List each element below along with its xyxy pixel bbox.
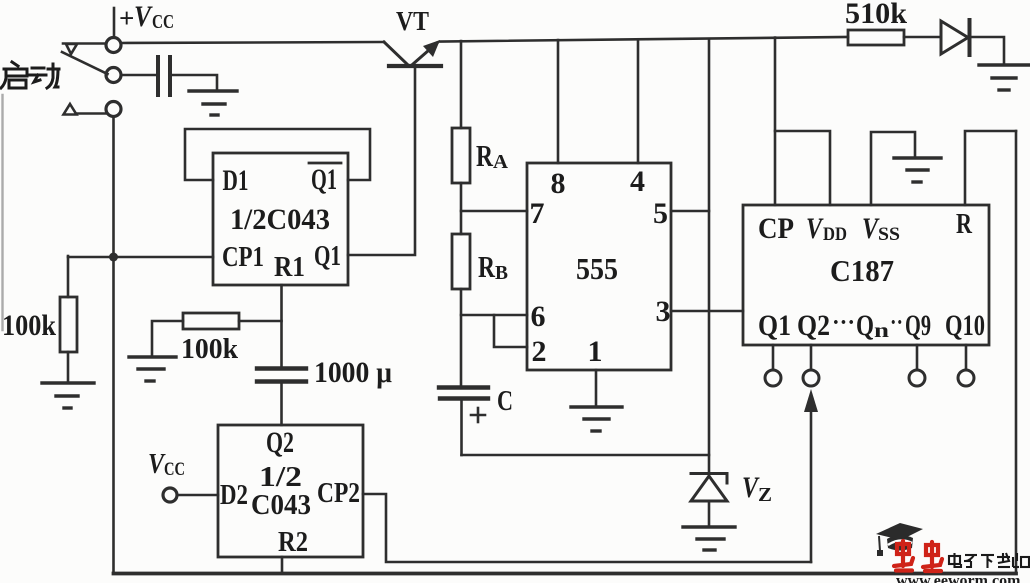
polarity plus sign [471, 408, 485, 422]
wire CP2 route [363, 494, 811, 562]
svg-text:Z: Z [758, 484, 772, 506]
wire R2 stub [281, 557, 284, 574]
wire bottom rail [114, 572, 1017, 576]
flip-flop U4 1/2C043 box [218, 425, 363, 557]
label RA [476, 138, 509, 173]
wire diode to ground [971, 37, 1004, 64]
node VCC label (left) [148, 448, 185, 480]
svg-text:Q2: Q2 [266, 426, 294, 459]
svg-text:Q10: Q10 [945, 309, 985, 342]
switch S1 upper terminal [106, 38, 121, 53]
wire pin5 [671, 210, 709, 213]
svg-text:CC: CC [152, 11, 174, 33]
pin Q1bar label [311, 163, 337, 196]
wire pin1 [595, 370, 598, 405]
switch upper contact triangle [66, 44, 77, 54]
wire R1 column [280, 285, 283, 366]
wire VZ to ground [708, 501, 711, 526]
watermark graduation cap [876, 523, 923, 556]
svg-text:1000 μ: 1000 μ [314, 356, 392, 389]
resistor RB [452, 234, 470, 289]
svg-text:+: + [119, 3, 134, 33]
wire rail to RA [460, 41, 463, 128]
wire pin3 [671, 310, 743, 313]
svg-text:··: ·· [890, 310, 903, 336]
resistor R5 100k [183, 313, 239, 329]
label RB [478, 249, 508, 284]
diode VD [941, 20, 970, 55]
svg-text:6: 6 [531, 300, 546, 333]
svg-text:D1: D1 [223, 164, 249, 197]
svg-text:2: 2 [532, 335, 547, 368]
timer U2 555 box [527, 163, 671, 370]
svg-text:Q2: Q2 [797, 309, 830, 342]
svg-text:Q: Q [856, 309, 874, 342]
scan edge artifact [1, 95, 3, 330]
wire pin6 to pin2 jumper [494, 315, 527, 347]
watermark 虫虫 [894, 541, 942, 571]
terminal D2 [163, 488, 177, 502]
wire VDD staple [775, 131, 830, 205]
capacitor C-switch left plate [156, 57, 160, 95]
svg-text:R: R [476, 138, 493, 173]
wire RB to C [460, 289, 463, 386]
zener diode VZ [691, 474, 727, 502]
wire C bottom rail to control column [462, 454, 710, 457]
svg-text:SS: SS [878, 224, 900, 245]
pin VDD label [806, 212, 847, 245]
ground (diode) [979, 65, 1030, 90]
wire R staple [965, 131, 1016, 205]
resistor R3 100k [60, 297, 77, 352]
wire Q9 output stub [916, 345, 919, 370]
overline Q1bar [309, 162, 341, 165]
svg-text:R1: R1 [274, 252, 305, 283]
wire 100k left lead [152, 321, 183, 356]
capacitor C2 1000u top plate [257, 366, 306, 370]
svg-text:7: 7 [530, 197, 545, 230]
svg-text:n: n [874, 320, 889, 342]
transistor VT arrowhead [423, 40, 440, 57]
capacitor C2 1000u bottom plate [257, 379, 306, 383]
resistor RA [452, 128, 470, 183]
svg-text:5: 5 [653, 197, 668, 230]
wire left column [112, 117, 115, 574]
svg-text:R: R [956, 208, 973, 240]
ground (switch capacitor) [189, 91, 237, 115]
wire top rail left [121, 42, 384, 43]
svg-text:3: 3 [656, 295, 671, 328]
svg-text:R2: R2 [278, 526, 308, 558]
capacitor C top plate [439, 385, 488, 389]
svg-text:1/2: 1/2 [259, 461, 302, 493]
pin VSS label [862, 212, 900, 245]
wire CP1 [68, 256, 213, 259]
wire control column [708, 39, 711, 472]
wire upper contact stub [63, 42, 106, 45]
svg-text:1: 1 [588, 335, 603, 368]
switch S1 middle terminal [106, 68, 121, 83]
wire VSS staple [871, 132, 915, 205]
svg-text:R: R [478, 249, 495, 284]
wire 100k horizontal right lead [239, 320, 282, 323]
svg-text:Q9: Q9 [905, 309, 931, 342]
wire pin4 [637, 40, 640, 164]
wire Q2 output stub [810, 345, 813, 370]
junction dot [109, 253, 118, 262]
wire 510k to diode [904, 36, 941, 39]
wire C2 to Q2 box [280, 383, 283, 425]
svg-text:555: 555 [576, 251, 618, 286]
wire R3 to ground [67, 352, 70, 381]
capacitor C bottom plate [440, 396, 488, 400]
svg-text:Q1: Q1 [311, 163, 337, 196]
ground (VZ) [683, 527, 735, 550]
ground (R5) [129, 357, 176, 381]
svg-text:1/2C043: 1/2C043 [230, 203, 330, 236]
svg-text:···: ··· [832, 310, 855, 336]
counter U3 C187 box [743, 205, 989, 345]
svg-text:CP2: CP2 [317, 478, 360, 509]
transistor VT [384, 42, 441, 66]
wire top rail right [440, 37, 848, 42]
switch S1 lower terminal [106, 102, 121, 117]
ground (555 pin1) [571, 407, 622, 431]
svg-text:CP1: CP1 [222, 242, 264, 273]
label VZ [742, 471, 772, 506]
svg-text:Q1: Q1 [314, 240, 341, 272]
arrowhead into Q2 terminal [804, 389, 818, 412]
wire VCC stub [113, 8, 116, 38]
wire right column [1015, 131, 1018, 574]
wire to R3 [67, 256, 70, 297]
svg-text:4: 4 [630, 165, 645, 198]
switch lower contact triangle [64, 104, 77, 115]
svg-text:Q1: Q1 [758, 309, 791, 342]
terminal Q2 [803, 370, 819, 386]
node 启动 label [1, 62, 59, 88]
wire Q1 to VT base [348, 68, 415, 255]
svg-text:CC: CC [164, 459, 185, 480]
wire Q10 output stub [965, 345, 968, 370]
svg-text:D2: D2 [220, 479, 248, 511]
wire Q1 output stub [772, 345, 775, 370]
svg-text:C187: C187 [830, 253, 894, 288]
wire D2 [177, 494, 218, 497]
wire D1-Q1bar feedback loop [185, 129, 370, 180]
ground (VSS) [894, 158, 941, 182]
wire capacitor to ground [172, 75, 217, 89]
svg-text:B: B [495, 262, 508, 284]
svg-text:A: A [493, 151, 509, 173]
svg-text:DD: DD [823, 224, 847, 245]
terminal Q1 [765, 370, 781, 386]
terminal Q10 [958, 370, 974, 386]
terminal Q9 [909, 370, 925, 386]
svg-text:C: C [497, 385, 513, 417]
svg-text:100k: 100k [2, 309, 56, 342]
wire CP pin to rail [774, 38, 777, 206]
wire C bottom [460, 400, 463, 455]
wire RA to RB [460, 183, 463, 234]
wire middle contact to capacitor [121, 74, 156, 77]
node +VCC label [119, 0, 174, 33]
wire pin7 [461, 210, 527, 213]
wire pin6 [461, 314, 527, 317]
svg-text:510k: 510k [845, 0, 907, 30]
wire Q2 output to CP2 [810, 400, 813, 562]
switch arm [62, 52, 108, 74]
svg-text:CP: CP [758, 212, 794, 245]
svg-text:V: V [134, 0, 154, 33]
capacitor C-switch right plate [168, 57, 172, 95]
flip-flop U1 1/2C043 box [213, 153, 348, 285]
ground (R3) [42, 383, 94, 408]
pin Qn label [856, 309, 889, 342]
svg-text:VT: VT [396, 6, 429, 36]
svg-text:C043: C043 [251, 490, 311, 521]
svg-text:100k: 100k [181, 334, 238, 365]
watermark 电子下载站 [949, 553, 1029, 568]
resistor R4 510k [848, 30, 904, 45]
svg-text:8: 8 [551, 167, 566, 200]
svg-text:V: V [806, 212, 824, 245]
wire pin8 [557, 40, 560, 163]
wire lower contact [77, 112, 107, 115]
svg-text:www.eeworm.com: www.eeworm.com [896, 573, 1021, 583]
